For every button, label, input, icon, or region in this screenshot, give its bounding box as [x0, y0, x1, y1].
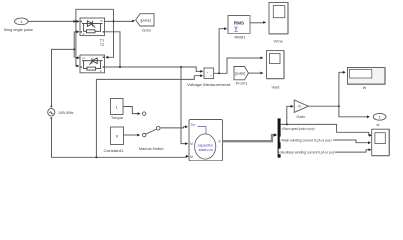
gain K1	[294, 100, 308, 119]
wire up to RMS	[219, 27, 227, 73]
outport w	[373, 113, 386, 126]
scope S3	[372, 129, 390, 155]
svg-text:Tm: Tm	[191, 123, 196, 127]
wire rotor speed out	[281, 124, 372, 136]
svg-text:-: -	[206, 75, 207, 79]
label auxiliary winding current	[279, 149, 336, 155]
svg-text:Manual Switch: Manual Switch	[139, 146, 164, 151]
svg-text:w: w	[377, 122, 380, 127]
wire node A to source	[52, 49, 75, 106]
wire T1.m to Goto	[105, 20, 136, 23]
inport 1 firing angle pulse	[4, 18, 34, 32]
wire RMS out to Vrms	[250, 21, 266, 24]
svg-text:capacitor: capacitor	[197, 143, 213, 147]
wire k loop down to T2 anode	[105, 9, 113, 58]
wire source bottom return	[52, 119, 190, 158]
manual switch SW1	[139, 112, 164, 151]
RMS1 block	[228, 16, 250, 40]
svg-text:M: M	[190, 142, 193, 146]
svg-text:Constant1: Constant1	[104, 148, 125, 153]
svg-text:240V 50Hz: 240V 50Hz	[58, 111, 73, 115]
scope Vout	[267, 51, 285, 90]
svg-text:<Rotor speed (rad/s or pu)>: <Rotor speed (rad/s or pu)>	[282, 127, 316, 131]
wire auxiliary winding current	[281, 148, 372, 152]
wire node B horizontal	[105, 67, 204, 73]
wire node B drop to motor	[181, 67, 188, 145]
thyristor T2	[80, 55, 105, 73]
wire speed to gain	[287, 105, 294, 125]
from1 [pulse]	[234, 67, 249, 86]
wire main winding current	[281, 140, 371, 144]
node A junction	[73, 48, 75, 50]
svg-text:firing angle pulse: firing angle pulse	[4, 27, 34, 32]
node gain out junction	[338, 105, 340, 107]
AC source 240V 50Hz	[48, 106, 74, 119]
svg-text:From1: From1	[236, 81, 248, 86]
svg-text:T1: T1	[100, 39, 104, 43]
svg-text:M: M	[190, 155, 193, 159]
svg-text:RMS: RMS	[234, 21, 244, 26]
svg-text:Vout: Vout	[271, 85, 280, 90]
svg-text:-start-run: -start-run	[197, 148, 212, 152]
svg-text:<Auxiliary winding current IL(: <Auxiliary winding current IL(A or pu)>	[279, 150, 336, 154]
voltage measurement U1	[187, 68, 231, 87]
node pulse junction	[75, 20, 77, 22]
wire to display W	[339, 71, 346, 106]
wire Torque to switch	[123, 107, 141, 116]
wire Constant1 to switch	[124, 134, 141, 137]
wire From1 to Vout	[249, 72, 264, 75]
wire top loop	[76, 9, 114, 21]
wire switch to motor Tm	[160, 125, 188, 128]
svg-text:Gain: Gain	[296, 114, 304, 119]
motor M1 capacitor-start-run	[189, 120, 223, 161]
wire VM out to Vout scope	[214, 57, 264, 74]
svg-text:<Main winding current Is (A or: <Main winding current Is (A or pu)>	[280, 138, 332, 142]
wire gain out	[308, 105, 339, 107]
svg-text:Torque: Torque	[111, 115, 124, 120]
svg-text:[pulse]: [pulse]	[235, 72, 245, 76]
svg-text:Voltage Measurement: Voltage Measurement	[187, 82, 231, 87]
svg-text:+: +	[207, 70, 209, 74]
node B junction drop	[180, 66, 182, 68]
scope Vrms	[269, 3, 288, 44]
wire VM minus from return node	[96, 74, 203, 157]
svg-text:Vrms: Vrms	[273, 39, 282, 44]
wire into T1 anode	[74, 30, 79, 33]
bus wire motor m output	[223, 133, 278, 141]
svg-text:[pulse]: [pulse]	[141, 18, 151, 22]
label main winding current	[280, 137, 334, 143]
wire gate drop to T2	[76, 21, 80, 67]
display W	[348, 68, 386, 90]
wire pulse input to T1 gate	[28, 20, 80, 23]
svg-text:T2: T2	[100, 43, 104, 47]
wire T2 cathode stub	[75, 56, 80, 59]
node B junction k	[119, 66, 121, 68]
wire T1.k down loop	[105, 32, 121, 67]
svg-text:RMS1: RMS1	[234, 35, 246, 40]
thyristor T1	[80, 18, 105, 36]
svg-text:Goto: Goto	[142, 28, 151, 33]
wire to outport w	[339, 106, 370, 118]
svg-text:-K-: -K-	[297, 105, 302, 109]
constant Torque	[111, 99, 124, 121]
constant C0	[104, 127, 125, 153]
node return junction	[95, 156, 97, 158]
goto [pulse]	[136, 14, 154, 33]
node speed tap	[286, 123, 288, 125]
svg-text:W: W	[363, 86, 367, 90]
node VM out junction	[218, 72, 220, 74]
svg-text:m: m	[218, 140, 221, 144]
wire node A vertical	[73, 32, 75, 58]
node m-wire crossing	[113, 20, 115, 22]
bus selector B1	[278, 118, 281, 157]
